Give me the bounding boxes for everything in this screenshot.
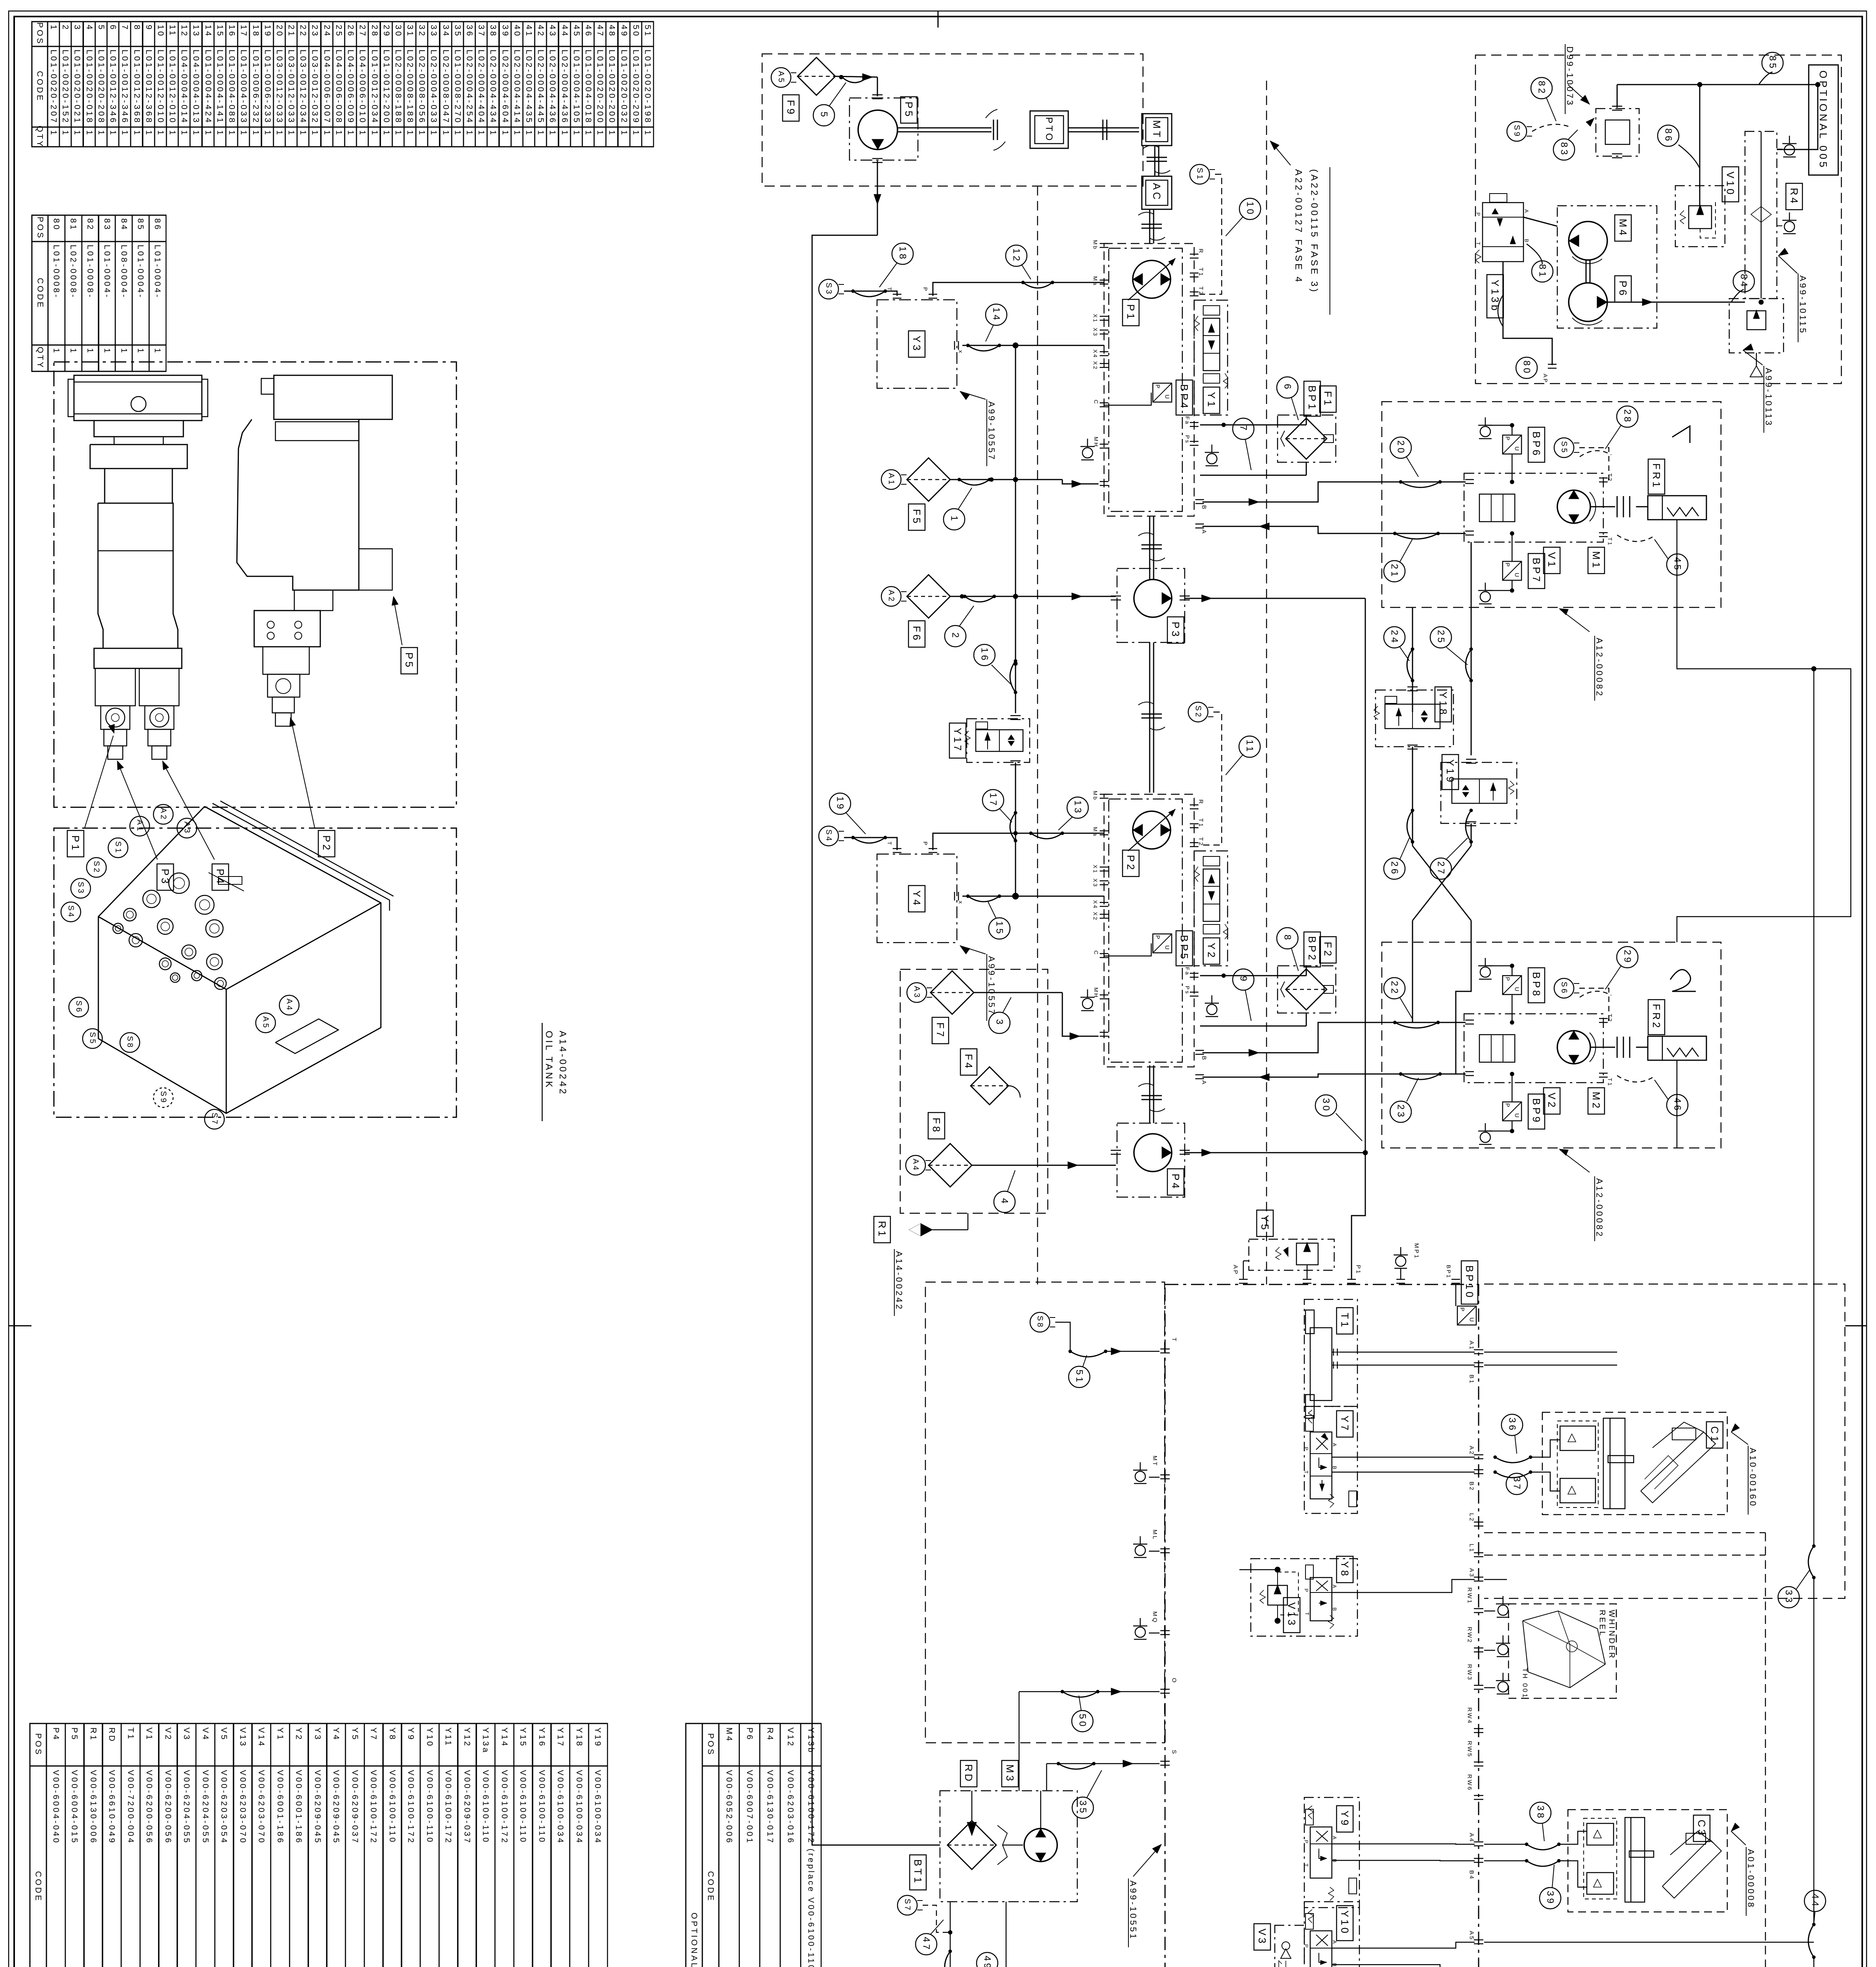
tank region dashed box	[925, 1282, 1165, 1743]
svg-text:A3: A3	[1468, 1568, 1475, 1578]
svg-text:P: P	[1304, 1447, 1309, 1452]
svg-text:28: 28	[370, 25, 379, 38]
svg-text:V2: V2	[164, 1727, 173, 1741]
svg-text:L03-0012-032: L03-0012-032	[310, 50, 319, 124]
valve Y9 box	[1304, 1797, 1359, 1908]
svg-text:19: 19	[263, 25, 272, 38]
svg-text:A: A	[1201, 530, 1208, 535]
svg-text:L01-0012-200: L01-0012-200	[382, 50, 391, 124]
wire P5 outlet down	[877, 161, 878, 235]
svg-text:BP7: BP7	[1531, 558, 1542, 584]
svg-text:A12-00082: A12-00082	[1595, 1178, 1605, 1238]
svg-text:Y7: Y7	[1339, 1415, 1351, 1433]
port T1 and drain	[1599, 1073, 1608, 1074]
svg-text:1: 1	[323, 130, 332, 137]
svg-text:A5: A5	[261, 1016, 270, 1029]
svg-text:P6: P6	[1617, 280, 1629, 298]
svg-text:V00-6100-110: V00-6100-110	[388, 1770, 397, 1844]
label V13	[1283, 1598, 1300, 1633]
svg-text:A2: A2	[159, 808, 168, 821]
label FR2	[1648, 1000, 1665, 1035]
label P4	[212, 864, 229, 890]
svg-text:37: 37	[1512, 1476, 1522, 1491]
hose 15 label	[968, 896, 999, 902]
relief valve V10 symbol	[1689, 206, 1712, 229]
svg-text:1: 1	[227, 130, 236, 137]
vent MP1	[1394, 1255, 1408, 1256]
sensor S2	[1188, 702, 1208, 722]
svg-text:1: 1	[643, 130, 652, 137]
svg-text:V00-6209-037: V00-6209-037	[351, 1770, 360, 1845]
svg-text:51: 51	[1074, 1369, 1085, 1384]
svg-text:Y1: Y1	[276, 1727, 285, 1741]
check valve drain	[1756, 353, 1757, 366]
svg-text:S1: S1	[1195, 168, 1204, 181]
svg-text:1: 1	[61, 130, 70, 137]
wire region1 to Y19	[1471, 542, 1472, 755]
svg-text:S9: S9	[159, 1091, 168, 1104]
svg-text:S5: S5	[88, 1032, 97, 1045]
hose 83 label	[1553, 139, 1575, 160]
wires F2	[1200, 975, 1306, 976]
svg-text:V00-6100-110: V00-6100-110	[519, 1770, 528, 1844]
svg-text:A: A	[1201, 1080, 1208, 1085]
temp sensor line	[950, 1902, 951, 1967]
svg-text:Y2: Y2	[1206, 943, 1217, 960]
svg-text:Y5: Y5	[1259, 1215, 1271, 1232]
svg-text:7: 7	[120, 25, 129, 31]
svg-text:ML: ML	[1152, 1530, 1158, 1541]
svg-text:1: 1	[406, 130, 415, 137]
svg-text:M4: M4	[1617, 219, 1629, 238]
svg-text:Mb: Mb	[1092, 791, 1099, 801]
svg-text:x: x	[958, 901, 964, 905]
svg-text:Y13b: Y13b	[1489, 280, 1501, 313]
hose 51 label	[1069, 1366, 1090, 1388]
svg-text:9: 9	[1238, 976, 1249, 984]
svg-text:Y17: Y17	[952, 728, 964, 753]
svg-text:Y18: Y18	[575, 1727, 584, 1747]
hose 44	[1808, 1925, 1814, 1957]
svg-text:S: S	[1171, 1750, 1178, 1755]
svg-text:1: 1	[334, 130, 343, 137]
wire Y3 P port to Ma	[933, 282, 1104, 296]
svg-text:30: 30	[394, 25, 403, 38]
svg-text:BP5: BP5	[1178, 935, 1190, 961]
svg-text:1: 1	[310, 130, 319, 137]
svg-text:RW3: RW3	[1466, 1664, 1473, 1681]
svg-text:P3: P3	[1170, 622, 1182, 639]
port B of P2	[1195, 1050, 1204, 1051]
svg-text:R: R	[1198, 249, 1204, 254]
port A3	[1474, 1577, 1483, 1578]
svg-text:RW2: RW2	[1466, 1627, 1473, 1644]
svg-text:L01-0020-209: L01-0020-209	[631, 50, 641, 124]
svg-text:BP6: BP6	[1531, 432, 1542, 458]
svg-text:PTO: PTO	[1044, 117, 1054, 142]
svg-text:22: 22	[299, 25, 308, 38]
svg-text:T1: T1	[1198, 818, 1204, 828]
svg-text:T1: T1	[1607, 537, 1613, 546]
valve Y10 box	[1304, 1902, 1359, 1967]
svg-text:Y19: Y19	[593, 1727, 602, 1747]
svg-text:1: 1	[477, 130, 486, 137]
port A of P1	[1195, 524, 1204, 525]
svg-text:P: P	[1504, 1103, 1511, 1108]
svg-text:25: 25	[334, 25, 343, 38]
label M4	[1615, 215, 1631, 241]
oil tank isometric	[98, 806, 381, 1113]
svg-text:Y12: Y12	[463, 1727, 472, 1747]
wire Y4 X port hose 15	[962, 896, 1016, 897]
label BT1	[910, 1855, 926, 1890]
svg-text:B: B	[1332, 1607, 1338, 1612]
svg-text:A3: A3	[183, 821, 191, 834]
svg-text:1: 1	[287, 130, 296, 137]
svg-text:S2: S2	[1194, 705, 1202, 718]
svg-text:33: 33	[1784, 1590, 1794, 1605]
svg-text:BP2: BP2	[1306, 936, 1318, 963]
svg-text:12: 12	[180, 25, 189, 38]
hose 20	[1401, 482, 1440, 487]
svg-text:1: 1	[560, 130, 569, 137]
svg-text:S4: S4	[824, 829, 833, 842]
hose 12 label	[1023, 282, 1052, 288]
svg-text:1: 1	[180, 130, 189, 137]
label F8	[928, 1113, 945, 1139]
wire tank to O	[1019, 1691, 1160, 1692]
label F9	[783, 95, 799, 121]
strainer F6	[907, 575, 950, 618]
svg-text:L01-0008-: L01-0008-	[52, 245, 61, 299]
wire P1-A to region1	[1202, 526, 1466, 533]
svg-text:QTY: QTY	[35, 125, 44, 148]
svg-text:C1: C1	[1709, 1426, 1721, 1444]
svg-text:Y11: Y11	[444, 1727, 453, 1747]
svg-text:A14-00242: A14-00242	[894, 1251, 904, 1311]
svg-text:1: 1	[263, 130, 272, 137]
hose 22	[1395, 1022, 1438, 1028]
svg-text:44: 44	[1810, 1893, 1821, 1908]
svg-text:B: B	[1332, 1859, 1338, 1864]
hose 81 label	[1532, 261, 1553, 282]
svg-text:49: 49	[982, 1956, 993, 1967]
svg-text:Fa: Fa	[1184, 967, 1191, 976]
svg-text:L02-0004-436: L02-0004-436	[560, 50, 569, 124]
label Y19	[1442, 755, 1459, 790]
strainer A2	[881, 587, 901, 606]
svg-text:P: P	[1304, 1589, 1309, 1593]
svg-text:CODE: CODE	[35, 71, 44, 102]
svg-text:17: 17	[239, 25, 248, 38]
svg-text:L04-0004-013: L04-0004-013	[192, 50, 201, 124]
svg-text:F2: F2	[1322, 942, 1334, 958]
svg-text:P2: P2	[1125, 855, 1137, 872]
svg-text:A10-00160: A10-00160	[1748, 1448, 1758, 1508]
svg-text:M1: M1	[1590, 551, 1602, 570]
motor M4	[1569, 221, 1607, 260]
transducer BP6	[1503, 435, 1521, 454]
hose 49 label	[977, 1952, 998, 1967]
label T1	[1337, 1308, 1353, 1334]
valve T1 section box	[1304, 1299, 1357, 1406]
engine MT	[1142, 114, 1172, 146]
svg-text:X3: X3	[1092, 878, 1099, 888]
svg-text:41: 41	[524, 25, 534, 38]
relief Y5 box	[1249, 1239, 1334, 1270]
svg-text:9: 9	[144, 25, 153, 31]
svg-text:38: 38	[1535, 1805, 1546, 1820]
fan blades	[997, 1825, 1007, 1865]
wire F6 to P3	[950, 596, 1116, 597]
shaft AC-P1	[1149, 209, 1150, 244]
svg-text:POS: POS	[706, 1733, 715, 1756]
svg-text:L03-0012-033: L03-0012-033	[287, 50, 296, 124]
label P3	[1167, 617, 1184, 643]
C1 iso art	[1641, 1432, 1715, 1503]
hose 21	[1395, 533, 1438, 539]
svg-text:T1: T1	[1339, 1313, 1351, 1329]
hose 19 label	[853, 838, 885, 843]
wires Y9 to ports	[1332, 1844, 1475, 1844]
svg-text:42: 42	[536, 25, 545, 38]
wire P3 outlet	[1185, 598, 1365, 599]
svg-text:L02-0004-434: L02-0004-434	[489, 50, 498, 124]
label V10	[1722, 167, 1739, 202]
hose 28	[1617, 406, 1638, 427]
hose 2	[965, 596, 994, 602]
svg-text:34: 34	[441, 25, 451, 38]
ports A4 B4	[1474, 1842, 1483, 1843]
svg-text:1: 1	[204, 130, 213, 137]
svg-text:3: 3	[73, 25, 82, 31]
svg-text:OPTIONAL 005: OPTIONAL 005	[690, 1913, 699, 1967]
wire drive top	[1617, 85, 1618, 108]
svg-text:1: 1	[85, 130, 94, 137]
svg-text:1: 1	[465, 130, 474, 137]
pump block P2 outer box	[1104, 794, 1194, 1067]
svg-text:1: 1	[239, 130, 248, 137]
sensor S3	[819, 279, 838, 299]
label Y5	[1257, 1210, 1273, 1236]
svg-text:Y1: Y1	[1206, 392, 1217, 409]
wire F7 to P2 S	[974, 992, 1062, 993]
svg-text:Y13a: Y13a	[481, 1727, 490, 1754]
hose 25	[1466, 649, 1471, 681]
P3 unit box	[1117, 568, 1185, 642]
svg-text:V00-6100-034: V00-6100-034	[556, 1770, 565, 1845]
svg-text:40: 40	[513, 25, 522, 38]
svg-text:20: 20	[275, 25, 284, 38]
svg-text:R1: R1	[876, 1221, 888, 1238]
svg-text:T2: T2	[1607, 1014, 1613, 1023]
svg-text:L02-0004-436: L02-0004-436	[548, 50, 557, 124]
R4 vents	[1782, 143, 1797, 144]
svg-text:F9: F9	[785, 100, 797, 116]
svg-text:6: 6	[1282, 384, 1293, 391]
svg-text:L01-0020-021: L01-0020-021	[73, 50, 82, 124]
svg-text:M3: M3	[1004, 1764, 1016, 1783]
port Mb Ma of P1	[1100, 243, 1108, 244]
svg-text:12: 12	[1011, 248, 1022, 263]
svg-text:1: 1	[548, 130, 557, 137]
T1 body	[1310, 1328, 1332, 1401]
svg-text:T: T	[886, 287, 893, 292]
label P2	[318, 830, 335, 857]
svg-text:AP: AP	[1232, 1265, 1239, 1275]
svg-text:V13: V13	[1286, 1602, 1298, 1627]
svg-text:V00-6200-056: V00-6200-056	[164, 1770, 173, 1845]
wire X4 line P2	[1016, 896, 1104, 897]
svg-text:B: B	[1524, 239, 1530, 244]
svg-text:13: 13	[192, 25, 201, 38]
component table 4 OPTIONAL 005 (M4..Y13b)	[686, 1723, 702, 1967]
svg-text:29: 29	[1622, 950, 1633, 965]
label M2	[1588, 1088, 1605, 1114]
shaft M4-P6	[1586, 260, 1587, 283]
svg-text:4: 4	[999, 1198, 1010, 1206]
oil tank drawing box	[54, 828, 456, 1117]
svg-text:O: O	[1171, 1678, 1178, 1684]
wire P3 outlet to manifold P1 port	[1352, 598, 1365, 1279]
valve body Y1	[1203, 318, 1220, 371]
svg-text:1: 1	[417, 130, 427, 137]
cylinder unit C3 box	[1568, 1810, 1727, 1912]
brake shaft	[1590, 506, 1615, 507]
filter F1 diamond	[1286, 418, 1327, 459]
svg-text:L01-0020-200: L01-0020-200	[607, 50, 617, 124]
shaft P3-P2	[1149, 642, 1150, 793]
svg-text:A99-10115: A99-10115	[1798, 275, 1808, 335]
transducer BP8	[1503, 976, 1521, 995]
pump mounts left view	[95, 668, 135, 706]
svg-text:S8: S8	[1036, 1316, 1044, 1329]
svg-text:8: 8	[1282, 935, 1293, 942]
svg-text:A: A	[1332, 1836, 1338, 1841]
svg-text:P: P	[1504, 436, 1511, 441]
svg-text:F5: F5	[911, 509, 923, 526]
svg-text:1: 1	[513, 130, 522, 137]
wire P5 to radiator	[812, 235, 940, 1845]
svg-text:X2: X2	[1092, 912, 1099, 921]
svg-text:B4: B4	[1468, 1870, 1475, 1880]
pump P5 unit box	[849, 98, 918, 160]
svg-text:1: 1	[501, 130, 510, 137]
hose 7 label	[1233, 418, 1254, 439]
shaft P1-P3	[1149, 516, 1150, 579]
svg-text:V00-6200-056: V00-6200-056	[145, 1770, 154, 1845]
svg-text:81: 81	[1537, 264, 1548, 279]
svg-text:V00-7200-004: V00-7200-004	[126, 1770, 135, 1845]
wire Y18 down	[1412, 747, 1413, 846]
svg-text:44: 44	[560, 25, 569, 38]
svg-text:F4: F4	[963, 1054, 975, 1070]
svg-text:T: T	[1304, 1864, 1309, 1868]
svg-text:11: 11	[1245, 740, 1255, 754]
svg-text:V00-6610-049: V00-6610-049	[107, 1770, 116, 1845]
svg-text:T1: T1	[1607, 1078, 1613, 1087]
svg-text:T: T	[886, 841, 893, 846]
svg-text:Y4: Y4	[332, 1727, 341, 1741]
svg-text:V3: V3	[1256, 1928, 1268, 1946]
Y7 body 4/3	[1310, 1432, 1332, 1499]
label FR1	[1648, 459, 1665, 494]
hose 5	[842, 77, 868, 83]
svg-text:REEL: REEL	[1598, 1610, 1606, 1637]
wires Y7 to ports A2 B2	[1332, 1457, 1475, 1458]
svg-text:X4: X4	[1092, 349, 1099, 358]
Y10 body	[1310, 1931, 1332, 1967]
table header column	[32, 22, 48, 147]
svg-text:P1: P1	[1355, 1265, 1362, 1275]
svg-text:1: 1	[136, 348, 145, 354]
wire to P2 Ma port	[1016, 833, 1104, 834]
shaft P5-PTO	[897, 127, 992, 129]
machine boundary dashed line A22	[1266, 81, 1267, 1284]
svg-text:1: 1	[73, 130, 82, 137]
svg-text:46: 46	[584, 25, 593, 38]
svg-text:TH 001: TH 001	[1521, 1668, 1529, 1699]
hose 11 label	[1239, 736, 1260, 757]
svg-text:Y9: Y9	[406, 1727, 415, 1741]
svg-text:P4: P4	[52, 1727, 61, 1741]
svg-text:A99-10113: A99-10113	[1764, 368, 1774, 427]
svg-text:MT: MT	[1151, 120, 1163, 139]
svg-text:T1: T1	[126, 1727, 135, 1741]
port S manifold	[1160, 1761, 1170, 1762]
svg-text:15: 15	[216, 25, 225, 38]
hose 26	[1407, 810, 1413, 842]
svg-text:V00-6007-001: V00-6007-001	[745, 1770, 754, 1845]
svg-text:V00-6100-110: V00-6100-110	[425, 1770, 434, 1844]
pump block P1 outer box	[1104, 244, 1194, 516]
svg-text:P: P	[1304, 1944, 1309, 1949]
svg-text:OIL TANK: OIL TANK	[544, 1031, 554, 1089]
svg-text:P5: P5	[903, 101, 915, 119]
long supply line right	[1813, 669, 1815, 1546]
svg-text:29: 29	[382, 25, 391, 38]
hose 33	[1808, 1546, 1814, 1578]
svg-text:C3: C3	[1696, 1819, 1708, 1837]
svg-text:P: P	[1154, 935, 1161, 940]
relief valve Y5	[1296, 1243, 1318, 1265]
svg-text:F1: F1	[1322, 391, 1334, 408]
svg-text:RD: RD	[963, 1764, 975, 1783]
svg-text:MP1: MP1	[1413, 1243, 1420, 1259]
cylinder unit C1 box	[1542, 1412, 1727, 1515]
hose 80 label	[1516, 357, 1537, 378]
svg-text:11: 11	[168, 25, 177, 37]
ports X1 X3 X4 X2 of P1	[1100, 316, 1108, 317]
svg-text:P: P	[922, 841, 929, 846]
valve R1	[968, 1213, 969, 1230]
svg-text:82: 82	[86, 218, 95, 231]
ports RW1 RW2 RW3 with couplers	[1474, 1608, 1483, 1609]
P5 circuit dashed box	[762, 54, 1143, 186]
filter F2 diamond	[1286, 969, 1327, 1010]
region drain interconnect	[1677, 607, 1851, 942]
wire S8 to T	[1106, 1351, 1160, 1352]
port O manifold	[1160, 1689, 1170, 1690]
dashed region around C1	[1484, 1284, 1845, 1598]
svg-text:A: A	[1332, 1585, 1338, 1589]
BP4 transducer label	[1176, 380, 1193, 415]
svg-text:P: P	[1304, 1840, 1309, 1845]
svg-text:U: U	[1164, 395, 1171, 400]
svg-text:V4: V4	[201, 1727, 210, 1741]
svg-text:FR2: FR2	[1651, 1004, 1662, 1030]
svg-text:Y17: Y17	[556, 1727, 565, 1747]
